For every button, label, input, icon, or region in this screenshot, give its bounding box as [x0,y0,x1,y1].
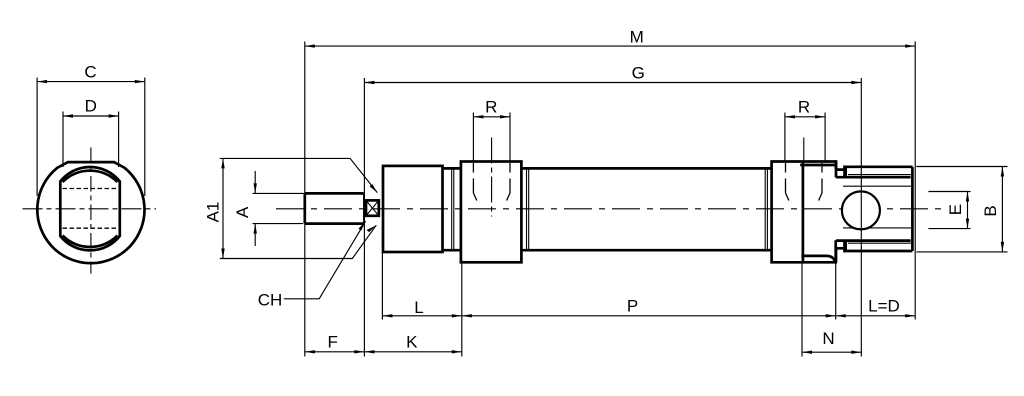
end view: vertical centerline [90,148,92,274]
rear port thread hidden left [785,163,787,193]
svg-text:R: R [485,98,497,117]
tube bottom edge [444,249,772,252]
tube crimp double line left [452,169,454,250]
clevis lower plate root [844,240,847,252]
dimension R rear [785,116,825,118]
dimension R front: extension lines [473,113,510,162]
clevis upper slot line [843,185,911,187]
end view: rod end barrel (flats profile) [60,167,120,250]
svg-text:C: C [84,63,96,82]
end view: horizontal centerline [23,208,157,210]
svg-text:L: L [414,298,423,317]
extension line rod tip (M/F) [304,42,306,357]
main centerline (piston axis) [276,208,942,210]
svg-text:E: E [946,204,965,215]
svg-text:G: G [632,64,645,83]
svg-text:B: B [981,205,1000,216]
dimension A1 leader bottom [220,225,377,258]
dimension A1 [222,158,224,258]
rear port thread hidden right [821,163,823,193]
clevis lower step [836,248,844,262]
dimension M [305,45,915,47]
extension line rear port axis (N) [801,262,803,356]
front port thread hidden left [472,163,474,193]
extension line cap face (L) [381,252,383,320]
tube crimp double line mid [527,169,529,250]
clevis upper plate root [844,166,847,178]
svg-text:K: K [406,332,418,351]
clevis upper step [836,162,844,170]
dimension D extension lines [63,112,119,168]
svg-text:A: A [233,206,252,218]
clevis upper thin line [848,174,912,176]
end view: hidden line lower [63,227,118,229]
dimension A [254,171,256,246]
dimension L=D [836,315,916,317]
front port block [461,162,522,263]
extension line front block corner (K/L/P) [461,262,463,356]
dimension G [364,82,861,84]
dimension C extension lines [37,78,145,197]
end view: outer circle with flat top (tube outline) [37,162,144,263]
dimension R front [473,116,510,118]
rear cap/clevis joint edge [802,162,805,263]
end view: hidden line upper [63,188,118,190]
dimension D [63,115,119,117]
dimension K [364,351,461,353]
piston rod [305,193,364,223]
rear port centerline [803,138,805,161]
svg-text:P: P [627,296,638,315]
clevis lower plate inner edge [836,239,911,242]
clevis upper plate inner edge [836,176,911,179]
dimension B extension lines [916,167,1007,252]
tube crimp double line right [765,169,767,250]
extension line hole axis (G/N) [860,78,862,357]
front port centerline [491,138,493,217]
clevis lower thin line [848,242,912,244]
svg-text:R: R [798,98,810,117]
clevis upper plate outer edge [845,167,913,177]
front port thread hidden right [509,163,511,193]
extension line clevis plate root (P / L=D) [835,262,837,319]
extension line rod shoulder (G/F/K) [363,78,365,357]
end view: rod end chamfer rim bottom [63,236,118,248]
clevis lower slot line [843,227,911,229]
wrench flats X [366,200,379,215]
svg-text:CH: CH [258,290,283,309]
rod wrench flats box CH [366,200,379,215]
svg-text:F: F [328,332,338,351]
dimension E [967,192,969,229]
tube top edge [444,167,772,170]
svg-text:A1: A1 [204,202,223,223]
extension line clevis end (M / L=D) [914,42,916,320]
dimension R rear: extension lines [785,113,825,162]
label CH leader [284,221,366,299]
dimension P [462,315,836,317]
dimension B [1001,167,1003,252]
svg-text:L=D: L=D [868,296,900,315]
dimension L [382,315,461,317]
rear port block [772,162,836,263]
clevis pin hole [842,191,880,229]
rear bracket top inner line [800,164,834,167]
dimension A1 leader top [220,158,378,192]
dimension E extension lines [928,192,970,229]
dimension C [37,81,145,83]
svg-text:M: M [630,28,644,47]
clevis lower plate outer edge [845,241,913,251]
clevis right edge [911,167,914,251]
svg-text:N: N [822,329,834,348]
dimension F [305,351,365,353]
rear bracket bottom inner line [801,256,835,261]
rod shoulder line [363,193,365,223]
dimension A extension lines [253,193,305,223]
end view: rod end chamfer rim top [63,171,118,182]
front cap [383,166,443,252]
dimension N [802,351,861,353]
svg-text:D: D [85,97,97,116]
